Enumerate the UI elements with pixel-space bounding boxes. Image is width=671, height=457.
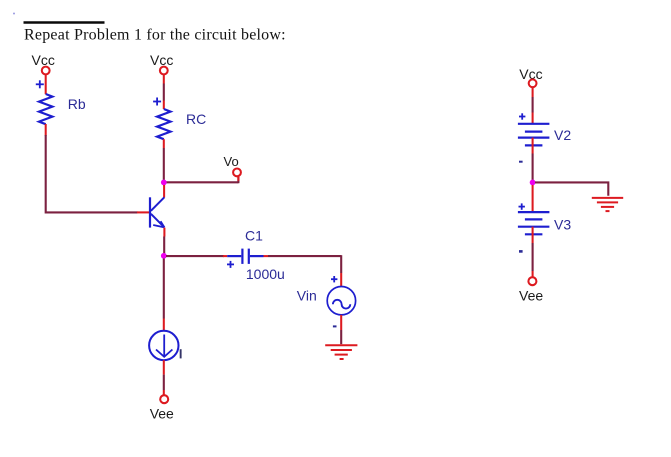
svg-text:Repeat Problem 1 for the circu: Repeat Problem 1 for the circuit below: xyxy=(24,27,286,44)
svg-text:Vee: Vee xyxy=(150,405,174,421)
svg-text:1000u: 1000u xyxy=(246,266,285,282)
svg-text:C1: C1 xyxy=(245,227,263,243)
svg-text:V2: V2 xyxy=(554,127,571,143)
svg-text:Vcc: Vcc xyxy=(32,52,55,68)
svg-text:Vcc: Vcc xyxy=(150,52,173,68)
svg-text:Rb: Rb xyxy=(68,96,86,112)
svg-text:Vin: Vin xyxy=(297,288,317,304)
svg-text:Vee: Vee xyxy=(519,287,543,303)
svg-text:V3: V3 xyxy=(554,216,571,232)
svg-text:Vo: Vo xyxy=(224,154,239,169)
svg-text:RC: RC xyxy=(186,111,206,127)
